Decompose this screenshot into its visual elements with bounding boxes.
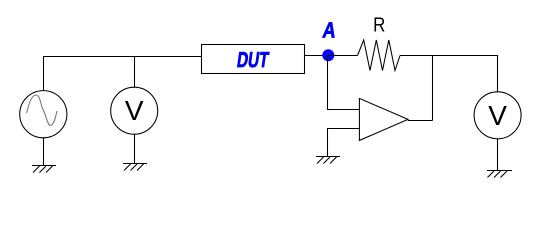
wire ground to op-amp lower input: [328, 129, 360, 157]
svg-text:DUT: DUT: [236, 47, 271, 72]
op-amp U1: [359, 98, 408, 140]
wire voltmeter V1 branch: [134, 56, 136, 88]
svg-text:V: V: [125, 95, 144, 126]
wire top-left bus: [44, 57, 202, 91]
svg-text:V: V: [488, 100, 507, 131]
AC source G1: [20, 91, 67, 138]
wire node A to resistor: [328, 55, 358, 57]
voltmeter V1: [111, 87, 158, 134]
DUT box: [202, 45, 305, 74]
wire V1 to ground: [134, 134, 136, 163]
voltmeter V2: [474, 92, 521, 139]
resistor R: [358, 40, 401, 71]
ground (op-amp input): [316, 157, 340, 164]
wire node A down to op-amp input: [328, 56, 360, 110]
wire DUT to node A: [305, 55, 329, 57]
wire resistor to right corner: [400, 56, 498, 92]
wire AC source to ground: [43, 138, 45, 165]
node A: [322, 49, 334, 61]
wire op-amp output: [408, 120, 433, 122]
wire feedback vertical: [432, 56, 434, 121]
ground (AC source): [32, 166, 56, 173]
ground (V2): [487, 171, 512, 178]
ground (V1): [123, 164, 147, 171]
svg-text:R: R: [373, 14, 385, 36]
wire V2 to ground: [497, 139, 499, 171]
